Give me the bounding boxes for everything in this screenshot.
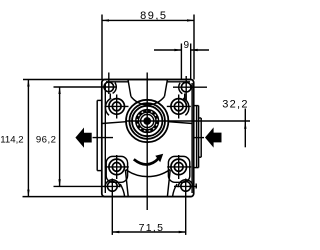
svg-text:32,2: 32,2 (222, 99, 249, 111)
svg-text:89,5: 89,5 (140, 10, 167, 22)
svg-text:96,2: 96,2 (36, 134, 56, 145)
svg-text:9: 9 (184, 40, 190, 51)
svg-text:114,2: 114,2 (0, 134, 23, 145)
svg-text:71,5: 71,5 (139, 222, 165, 234)
